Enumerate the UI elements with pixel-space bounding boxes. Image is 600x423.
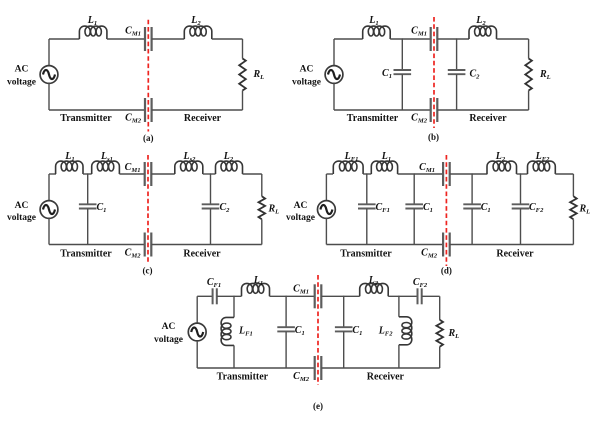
label AC voltage (a)	[7, 65, 36, 88]
capacitor CM2 (c)	[145, 233, 152, 257]
wire: (d) C1 shunt branch lower	[413, 209, 415, 245]
node: (d) CF2 tap on top wire	[520, 173, 522, 175]
inductor Ls2 (c)	[175, 161, 203, 174]
wire: (c) C1 shunt branch lower	[87, 209, 89, 245]
svg-text:(d): (d)	[441, 266, 452, 276]
label AC voltage (b)	[292, 65, 321, 88]
inductor L2 (e)	[360, 283, 389, 296]
svg-text:voltage: voltage	[154, 335, 183, 345]
AC voltage source (e)	[188, 323, 206, 341]
wire: (e) LF1 shunt branch lower	[233, 345, 235, 368]
resistor RL (e)	[436, 320, 443, 347]
wire: (b) top wire middle segment	[390, 38, 431, 40]
wire: (a) top wire left segment	[49, 38, 79, 40]
inductor L2 (c)	[216, 161, 243, 174]
wire: (b) right wire upper	[528, 39, 530, 59]
wire: (e) LF2 shunt branch upper	[398, 296, 400, 317]
svg-text:Receiver: Receiver	[367, 372, 405, 383]
svg-text:voltage: voltage	[7, 213, 36, 223]
wire: (a) left wire upper	[48, 39, 50, 66]
node: (e) receiver C1 tap	[343, 296, 345, 298]
svg-text:AC: AC	[162, 322, 176, 332]
svg-text:(e): (e)	[313, 401, 323, 411]
wire: (b) C1 shunt branch upper	[401, 39, 403, 70]
resistor RL (a)	[239, 59, 246, 91]
capacitor C1 receiver (d)	[463, 204, 481, 208]
node: (b) C2 tap on top wire	[456, 38, 458, 40]
capacitor C2 (b)	[448, 70, 466, 74]
resistor RL (d)	[570, 196, 577, 219]
wire: (e) left wire lower	[196, 341, 198, 368]
inductor L1 (b)	[363, 26, 391, 39]
svg-text:Receiver: Receiver	[469, 113, 507, 124]
circuit (d) boundary red dashed line (resonant link)	[445, 155, 447, 266]
wire: (b) bottom wire left segment	[334, 109, 431, 111]
capacitor CM1 (a)	[145, 27, 152, 51]
wire: (d) CF1 shunt branch upper	[366, 174, 368, 204]
inductor LF2 shunt (e)	[399, 317, 412, 345]
wire: (c) left wire lower	[48, 218, 50, 244]
svg-text:Receiver: Receiver	[496, 248, 534, 259]
capacitor CF2 (d)	[512, 204, 530, 208]
resistor RL (c)	[259, 196, 266, 219]
wire: (d) top wire seg5	[517, 173, 528, 175]
wire: (e) LF2 shunt branch lower	[398, 345, 400, 368]
svg-text:AC: AC	[15, 201, 29, 211]
wire: (c) right wire lower	[261, 219, 263, 244]
circuit (b) boundary red dashed line (resonant link)	[433, 17, 435, 128]
node: (e) LF1 tap on top wire	[233, 296, 235, 298]
wire: (d) left wire upper	[325, 174, 327, 201]
inductor LF1 (d)	[333, 161, 363, 174]
wire: (a) right wire lower	[242, 91, 244, 111]
wire: (d) right wire upper	[572, 174, 574, 196]
wire: (e) top wire seg4	[388, 295, 417, 297]
circuit (e) boundary red dashed line (resonant link)	[317, 275, 319, 385]
wire: (e) bottom wire right segment	[321, 367, 439, 369]
wire: (e) right wire lower	[439, 347, 441, 368]
svg-text:(b): (b)	[428, 132, 439, 142]
AC voltage source (c)	[40, 201, 58, 219]
wire: (d) bottom wire right segment	[450, 244, 574, 246]
wire: (e) right wire upper	[439, 296, 441, 320]
wire: (e) C1 shunt branch upper	[285, 296, 287, 327]
capacitor CM1 (b)	[431, 27, 438, 51]
capacitor C1 (d)	[405, 204, 423, 208]
capacitor CF1 (d)	[358, 204, 376, 208]
inductor Ls1 (c)	[92, 161, 120, 174]
wire: (e) receiver C1 shunt upper	[343, 296, 345, 327]
capacitor C1 (b)	[394, 70, 412, 74]
svg-text:AC: AC	[300, 65, 314, 75]
wire: (c) C1 shunt branch upper	[87, 174, 89, 204]
wire: (e) C1 shunt branch lower	[285, 332, 287, 368]
capacitor CM1 (d)	[443, 162, 450, 186]
inductor L1 (c)	[56, 161, 83, 174]
capacitor C1 (c)	[79, 204, 97, 208]
capacitor CM2 (d)	[443, 233, 450, 257]
inductor L1 (e)	[242, 283, 270, 296]
svg-text:voltage: voltage	[292, 78, 321, 88]
wire: (c) top wire to right corner	[243, 173, 262, 175]
wire: (c) top wire seg5	[203, 173, 216, 175]
capacitor C1 (e)	[277, 327, 295, 331]
svg-text:AC: AC	[294, 201, 308, 211]
wire: (e) bottom wire left segment	[197, 367, 315, 369]
wire: (b) top wire to right corner	[497, 38, 529, 40]
svg-text:AC: AC	[15, 65, 29, 75]
wire: (b) top wire left segment	[334, 38, 363, 40]
inductor L2 (d)	[487, 161, 517, 174]
wire: (c) C2 shunt branch upper	[210, 174, 212, 204]
svg-text:voltage: voltage	[7, 78, 36, 88]
wire: (e) top wire seg3	[270, 295, 315, 297]
capacitor CM1 (e)	[315, 284, 322, 308]
wire: (a) top wire to right corner	[212, 38, 243, 40]
wire: (b) left wire lower	[333, 83, 335, 110]
inductor LF1 shunt (e)	[221, 317, 234, 345]
node: (d) C1 tap on top wire	[413, 173, 415, 175]
svg-text:Transmitter: Transmitter	[217, 372, 269, 383]
label AC voltage (d)	[286, 201, 315, 223]
wire: (b) top wire right of CM1	[437, 38, 469, 40]
wire: (c) left wire upper	[48, 174, 50, 201]
wire: (d) CF1 shunt branch lower	[366, 209, 368, 245]
node: (d) receiver C1 tap	[471, 173, 473, 175]
wire: (b) left wire upper	[333, 39, 335, 66]
wire: (a) top wire middle segment	[107, 38, 145, 40]
wire: (b) bottom wire right segment	[437, 109, 528, 111]
wire: (d) right wire lower	[572, 219, 574, 244]
svg-text:voltage: voltage	[286, 213, 315, 223]
node: (c) C2 tap on top wire	[210, 173, 212, 175]
wire: (c) top wire seg2	[83, 173, 92, 175]
wire: (e) receiver C1 shunt lower	[343, 332, 345, 368]
svg-text:(a): (a)	[143, 133, 154, 143]
node: (b) C1 tap on top wire	[402, 38, 404, 40]
wire: (a) bottom wire left segment	[49, 109, 145, 111]
svg-text:Transmitter: Transmitter	[340, 248, 392, 259]
wire: (d) bottom wire left segment	[326, 244, 443, 246]
wire: (d) receiver C1 shunt lower	[471, 209, 473, 245]
circuit (a) boundary red dashed line (resonant link)	[147, 20, 149, 132]
inductor L2 (a)	[184, 26, 212, 39]
wire: (c) bottom wire right segment	[151, 244, 261, 246]
capacitor CM2 (e)	[315, 356, 322, 380]
AC voltage source (d)	[318, 201, 336, 219]
wire: (e) LF1 shunt branch upper	[233, 296, 235, 317]
wire: (c) top wire right of CM1	[151, 173, 175, 175]
wire: (e) top wire left segment	[197, 295, 212, 297]
wire: (e) top wire to right corner	[422, 295, 440, 297]
capacitor C1 receiver (e)	[335, 327, 353, 331]
capacitor CM2 (b)	[431, 98, 438, 122]
inductor L1 (d)	[371, 161, 397, 174]
wire: (d) C1 shunt branch upper	[413, 174, 415, 204]
resistor RL (b)	[525, 59, 532, 91]
capacitor CM1 (c)	[145, 162, 152, 186]
label AC voltage (e)	[154, 322, 183, 345]
svg-text:Receiver: Receiver	[184, 113, 222, 124]
wire: (d) top wire seg2	[363, 173, 371, 175]
node: (d) CF1 tap on top wire	[366, 173, 368, 175]
wire: (a) top wire right segment	[152, 38, 185, 40]
svg-text:Transmitter: Transmitter	[60, 248, 112, 259]
wire: (b) C2 shunt branch upper	[456, 39, 458, 70]
wire: (c) C2 shunt branch lower	[210, 209, 212, 245]
wire: (c) right wire upper	[261, 174, 263, 196]
svg-text:(c): (c)	[143, 266, 153, 276]
inductor L1 (a)	[79, 26, 107, 39]
node: (e) C1 tap on top wire	[285, 296, 287, 298]
wire: (d) receiver C1 shunt upper	[471, 174, 473, 204]
wire: (d) CF2 shunt branch lower	[520, 209, 522, 245]
AC voltage source (a)	[40, 66, 58, 84]
AC voltage source (b)	[325, 66, 343, 84]
wire: (d) top wire seg3	[398, 173, 444, 175]
wire: (d) top wire left segment	[326, 173, 333, 175]
wire: (e) top wire right of CM1	[321, 295, 359, 297]
wire: (c) top wire left segment	[49, 173, 56, 175]
wire: (c) bottom wire left segment	[49, 244, 145, 246]
wire: (d) top wire to right corner	[555, 173, 573, 175]
wire: (d) CF2 shunt branch upper	[520, 174, 522, 204]
wire: (a) left wire lower	[48, 83, 50, 110]
wire: (e) left wire upper	[196, 296, 198, 323]
capacitor CM2 (a)	[145, 98, 152, 122]
wire: (a) bottom wire right segment	[152, 109, 243, 111]
wire: (b) right wire lower	[528, 91, 530, 111]
label AC voltage (c)	[7, 201, 36, 223]
wire: (a) right wire upper	[242, 39, 244, 59]
capacitor C2 (c)	[202, 204, 220, 208]
wire: (b) C1 shunt branch lower	[401, 74, 403, 110]
circuit (c) boundary red dashed line (resonant link)	[147, 155, 149, 264]
inductor L2 (b)	[469, 26, 497, 39]
wire: (d) left wire lower	[325, 218, 327, 244]
node: (c) C1 tap on top wire	[87, 173, 89, 175]
inductor LF2 (d)	[528, 161, 556, 174]
wire: (e) top wire seg2	[217, 295, 242, 297]
wire: (c) top wire seg3	[119, 173, 144, 175]
capacitor CF1 (e)	[213, 288, 217, 304]
wire: (d) top wire right of CM1	[450, 173, 488, 175]
svg-text:Transmitter: Transmitter	[60, 113, 112, 124]
wire: (b) C2 shunt branch lower	[456, 74, 458, 110]
svg-text:Receiver: Receiver	[183, 248, 221, 259]
capacitor CF2 (e)	[418, 288, 422, 304]
node: (e) LF2 tap on top wire	[398, 296, 400, 298]
svg-text:Transmitter: Transmitter	[347, 113, 399, 124]
